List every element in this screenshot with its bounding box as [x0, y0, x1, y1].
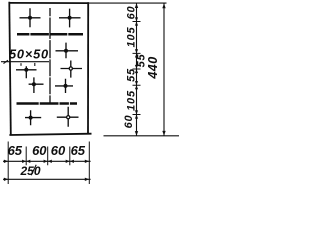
svg-text:65: 65: [71, 143, 86, 158]
svg-text:60: 60: [51, 143, 66, 158]
svg-text:105: 105: [126, 90, 138, 111]
svg-text:50×50: 50×50: [9, 47, 49, 62]
svg-text:250: 250: [19, 164, 40, 178]
svg-text:60: 60: [123, 115, 135, 129]
svg-text:65: 65: [8, 143, 23, 158]
svg-text:105: 105: [126, 27, 138, 48]
svg-text:60: 60: [126, 6, 138, 20]
svg-text:60: 60: [32, 143, 47, 158]
svg-text:440: 440: [146, 56, 160, 79]
svg-text:55: 55: [126, 68, 138, 82]
